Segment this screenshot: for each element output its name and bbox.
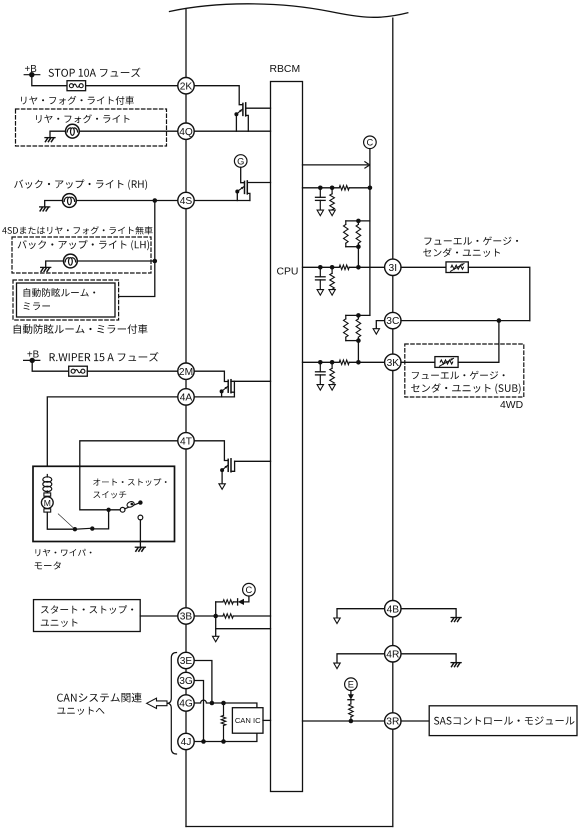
node pair1 top [356, 219, 361, 224]
wire +B to fuse [32, 75, 67, 86]
wire 3C to signal ground [376, 321, 384, 329]
auto-stop switch throw contact [138, 515, 143, 520]
RBCM module top cut line (wavy) [170, 4, 408, 18]
node 3K row a [318, 360, 323, 365]
start-stop unit box [34, 600, 141, 632]
arrow to CAN system units [147, 698, 167, 708]
inductor wiper motor coil [43, 475, 52, 492]
wire 4A to Q3 source [194, 396, 234, 398]
wire pair2 bottom bar [346, 340, 359, 342]
transistor Q3 [220, 380, 271, 397]
resistor R8 [330, 267, 335, 289]
svg-text:G: G [237, 156, 244, 166]
park switch common contact [73, 527, 77, 531]
wire 3C to sender return [401, 320, 530, 322]
node A (row1/pair1) [368, 186, 373, 191]
svg-text:3B: 3B [180, 612, 193, 623]
resistor R2 to diode [216, 600, 238, 604]
svg-text:4J: 4J [181, 737, 192, 748]
wire 3I to fuel sender [401, 266, 446, 268]
CPU U1 box [271, 82, 303, 792]
lamp rear fog light [66, 124, 80, 138]
svg-text:3R: 3R [386, 717, 399, 728]
resistor R7 [339, 265, 349, 270]
label 4WD [500, 400, 523, 411]
svg-text:E: E [348, 680, 354, 690]
wire switch to ground [139, 520, 141, 547]
wire pair2 top bar [346, 314, 370, 316]
node 3B junction [213, 614, 218, 619]
node 3R junction [349, 719, 354, 724]
signal ground arrow R12 [329, 385, 335, 391]
connector 4J [178, 733, 194, 749]
wire +B to wiper fuse [32, 360, 68, 371]
svg-text:4B: 4B [387, 604, 400, 615]
wire CPU to C with arrow [303, 162, 370, 168]
wire fuse to connector 2K [86, 85, 178, 87]
wire sub sender to 3C node [458, 321, 499, 363]
resistor R3 [339, 186, 349, 191]
svg-text:4WD: 4WD [500, 400, 523, 411]
node junction on 4S wire [153, 198, 158, 203]
connector 4R [385, 646, 401, 662]
transistor Q1 [234, 103, 270, 131]
resistor R6 [356, 221, 361, 247]
wire 4Q to CPU (Q1 source) [194, 130, 270, 132]
connector 3K [385, 354, 401, 370]
wire start-stop unit to 3B [140, 615, 178, 617]
wire 4J line to CAN IC [194, 733, 257, 741]
wire motor to park switch [47, 512, 75, 529]
label SAS control module [434, 716, 575, 725]
wire 3G to 4J line (crosses 4G) [194, 681, 203, 742]
fuse R.WIPER 15A [69, 366, 88, 376]
svg-text:3K: 3K [387, 358, 400, 369]
fuel gauge sender unit (rheostat) [446, 262, 468, 273]
CAN IC U2 [232, 708, 263, 734]
wire ground to lamp [50, 131, 66, 137]
resistor R4 [330, 188, 335, 210]
connector 4A [178, 389, 194, 405]
wire 4B left to ground arrow [337, 609, 385, 618]
RBCM left harness bus wire [185, 9, 187, 826]
rear fog light option dashed box [16, 109, 167, 146]
wire ground to lamp LH [46, 261, 64, 267]
svg-text:CPU: CPU [277, 267, 299, 278]
svg-text:RBCM: RBCM [270, 64, 301, 75]
node resistor join 4J line [221, 739, 226, 744]
mechanical link motor to switch [58, 514, 74, 529]
label fuel sub sender line2 [411, 383, 520, 394]
back-up light LH option dashed box [12, 237, 151, 273]
wire junction down to mirror box [116, 261, 155, 297]
signal ground arrow 3C [373, 329, 379, 335]
auto-dimming mirror option dashed box [13, 280, 119, 320]
wire 2K to Q1 gate [194, 86, 242, 105]
motor M (rear wiper) [41, 493, 53, 512]
wire G to Q2 gate [241, 167, 244, 182]
ground G3 (back-up light LH) [41, 267, 51, 271]
connector 3C [385, 312, 401, 328]
node 3G join 4J line [201, 739, 206, 744]
svg-text:2M: 2M [179, 367, 193, 378]
wire CAN IC to CPU [263, 719, 271, 721]
connector 3B [178, 608, 194, 624]
label with auto-dimming mirror [14, 324, 148, 334]
resistor R10 [356, 315, 361, 340]
connector 3I [385, 259, 401, 275]
node 3I row c [356, 265, 361, 270]
node 3I row b [330, 265, 335, 270]
wire junction down to LH lamp branch [154, 201, 156, 262]
label to units [57, 707, 104, 715]
resistor R1 on 3B line [223, 614, 233, 618]
ground G1 (rear fog light) [45, 138, 55, 142]
signal ground arrow C1 [317, 210, 323, 216]
wire park switch to node [92, 510, 108, 529]
connector 2M [178, 363, 194, 379]
node junction 4G-resistor [221, 701, 226, 706]
svg-text:CAN IC: CAN IC [235, 716, 261, 725]
wire C down to node A [369, 149, 371, 188]
connector 4G [178, 695, 194, 711]
wire 4B right to ground [401, 609, 456, 618]
connector 4S [178, 192, 194, 208]
fuse STOP 10A [67, 81, 86, 91]
park switch arm [75, 528, 92, 529]
wire lamp to connector 4Q [79, 130, 178, 132]
label rear fog light equipped [21, 96, 134, 105]
wire lamp LH to junction [77, 260, 155, 262]
signal ground arrow 4R [334, 663, 340, 669]
SAS control module box [429, 706, 577, 736]
wire E to diode [350, 691, 352, 695]
node 3E join 4G line [210, 701, 215, 706]
ground G6 (4R) [451, 663, 461, 667]
wire 4R left to ground arrow [337, 654, 385, 663]
signal ground arrow R8 [329, 290, 335, 296]
wire 4S to Q2 source [194, 200, 250, 202]
node junction LH branch [153, 259, 158, 264]
RBCM label [270, 64, 301, 75]
connector 3R [385, 713, 401, 729]
wire CPU to 3R [303, 720, 385, 722]
svg-text:4R: 4R [386, 649, 399, 660]
label STOP 10A fuse [49, 68, 141, 78]
connector 4B [385, 601, 401, 617]
node 3K row b [330, 360, 335, 365]
label CAN system related [57, 693, 142, 703]
wire CPU to 3K [303, 361, 385, 363]
label 4SD or no rear fog light [2, 226, 152, 234]
label back-up light LH [18, 240, 150, 250]
wire 3K to sub sender [401, 361, 435, 363]
svg-text:C: C [246, 585, 253, 595]
terminal G (gate drive) [234, 155, 247, 168]
transistor Q2 [235, 181, 270, 201]
label auto stop switch line2 [93, 491, 126, 498]
label rear fog light [36, 114, 129, 123]
node 3K row c [356, 360, 361, 365]
lamp back-up light LH [64, 254, 78, 268]
diode D2 (zener) [348, 694, 354, 699]
wire fuel sender to 3C line [468, 267, 530, 320]
ground G2 (back-up light RH) [40, 207, 50, 211]
wire ground to lamp RH [45, 201, 63, 207]
auto-stop switch pole [120, 507, 125, 512]
wire 4A to wiper motor [47, 397, 178, 477]
label rear wiper motor line1 [35, 549, 91, 557]
ground G5 (4B) [451, 618, 461, 622]
label start stop unit line2 [41, 619, 78, 627]
svg-text:C: C [367, 138, 374, 148]
connector 4T [178, 433, 194, 449]
node auto-stop junction [106, 508, 110, 512]
wire 3B node down to ground arrow [215, 616, 217, 637]
signal ground arrow Q4 [219, 484, 225, 490]
svg-text:4Q: 4Q [179, 127, 193, 138]
node pair2 top [356, 313, 361, 318]
wire pair1 top bar [346, 220, 370, 222]
resistor R12 [330, 362, 335, 384]
ground G4 (auto-stop switch) [135, 547, 145, 551]
transistor Q4 [220, 459, 270, 484]
wire CPU pullup row [303, 187, 370, 189]
svg-text:3C: 3C [386, 316, 399, 327]
label auto-dimming room mirror line1 [24, 288, 96, 297]
label fuel gauge sender line1 [424, 236, 518, 245]
wire lamp RH to connector 4S [76, 200, 178, 202]
fuel gauge sender unit SUB (rheostat) [435, 357, 458, 368]
wire pair1 to 3I row [357, 247, 359, 268]
wire CPU to 3I [303, 266, 385, 268]
signal ground arrow C2 [317, 290, 323, 296]
svg-text:4G: 4G [179, 699, 193, 710]
wire 4G line with hop to CAN IC [194, 700, 257, 708]
resistor R11 [339, 360, 349, 365]
label start stop unit line1 [41, 605, 133, 614]
RBCM bottom edge wire [186, 826, 393, 828]
node sender return junction [497, 318, 502, 323]
terminal E (clamp) [345, 678, 358, 691]
node pair2 bottom [356, 338, 361, 343]
connector 3G [178, 672, 194, 688]
label fuel gauge sender line2 [423, 248, 500, 257]
connector 3E [178, 652, 194, 668]
terminal C (3B clamp) [243, 583, 256, 596]
connector 2K [178, 78, 194, 94]
signal ground arrow 4B [334, 618, 340, 624]
resistor CAN terminator [221, 703, 226, 742]
4WD option dashed box [405, 344, 524, 397]
label auto stop switch line1 [93, 478, 166, 486]
wire pair2 to 3K row [357, 341, 359, 363]
lamp back-up light RH [63, 194, 77, 208]
capacitor C1 [316, 188, 326, 210]
wire coil to motor [46, 491, 48, 493]
resistor R5 [344, 221, 349, 247]
svg-text:M: M [44, 498, 51, 508]
svg-text:4S: 4S [180, 196, 193, 207]
label auto-dimming room mirror line2 [24, 302, 51, 310]
park switch contact 2 [90, 526, 94, 530]
label rear wiper motor line2 [35, 561, 61, 569]
capacitor C2 [316, 267, 326, 289]
battery feed +B (STOP) [24, 64, 40, 78]
RBCM right harness bus wire [392, 18, 394, 826]
label R.WIPER fuse [50, 352, 159, 362]
battery feed +B (R.WIPER) [24, 349, 40, 363]
node 3I row a [318, 265, 323, 270]
wire 4T into motor box [80, 441, 178, 510]
node row1 a [318, 186, 323, 191]
wire diode to C [244, 596, 249, 602]
wire node A to 3I row [369, 188, 371, 267]
svg-text:3I: 3I [389, 263, 398, 274]
wire 3E to CAN node [194, 661, 212, 704]
svg-text:4T: 4T [180, 436, 192, 447]
wire 3B lower branch to CPU [216, 628, 271, 630]
svg-text:3E: 3E [180, 656, 193, 667]
wire wiper fuse to connector 2M [87, 370, 178, 372]
capacitor C3 [316, 362, 326, 384]
wire pair1 bottom bar [346, 246, 359, 248]
label back-up light RH [14, 179, 147, 189]
signal ground arrow 3B [213, 636, 219, 642]
wire 3R to SAS module [401, 720, 429, 722]
wire 2M to Q3 gate [194, 371, 227, 381]
resistor R9 [344, 315, 349, 340]
svg-text:4A: 4A [180, 393, 193, 404]
auto-stop switch arm [125, 500, 143, 508]
resistor R13 [349, 700, 354, 721]
auto-stop cam [126, 501, 135, 509]
rear wiper motor box [33, 466, 175, 541]
wire 4R right to ground [401, 654, 456, 663]
diode D1 [238, 599, 244, 605]
node row1 b [330, 186, 335, 191]
signal ground arrow C3 [317, 385, 323, 391]
wire 3B to CPU [194, 615, 270, 617]
connector 4Q [178, 123, 194, 139]
brace CAN connectors [167, 653, 176, 755]
wire 3B node up [215, 602, 217, 616]
auto-dimming mirror unit box [17, 283, 116, 317]
terminal C (clamp top) [364, 136, 377, 149]
svg-text:3G: 3G [179, 676, 193, 687]
wire 3I row down to pair2 [369, 267, 371, 315]
wire 4T to Q4 gate [194, 441, 227, 461]
svg-text:2K: 2K [180, 81, 193, 92]
node pair1 bottom [356, 244, 361, 249]
label fuel sub sender line1 [412, 371, 505, 380]
signal ground arrow R4 [329, 210, 335, 216]
